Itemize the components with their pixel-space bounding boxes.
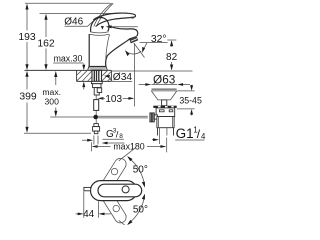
extension line at hose end (max300 bottom) and pop-up rod	[50, 116, 93, 118]
svg-text:50°: 50°	[133, 205, 148, 216]
drain cap band	[153, 106, 176, 108]
mounting shank through deck	[92, 70, 102, 81]
label Ø46	[64, 17, 96, 28]
dimension 103	[97, 94, 134, 105]
extension line 399 bottom	[24, 132, 91, 134]
lever handle (rest position)	[93, 13, 135, 26]
small down arrow at cap	[101, 26, 104, 30]
pop-up plug stem	[162, 100, 167, 106]
deck top line	[25, 69, 112, 71]
svg-text:193: 193	[18, 32, 36, 43]
ghost handle upper (rotated -56)	[96, 156, 128, 198]
dimension 82	[166, 40, 178, 71]
deck hatching right	[102, 71, 111, 81]
svg-text:103: 103	[105, 94, 122, 105]
label G3/8	[102, 127, 123, 140]
rod-to-drain arrow right	[152, 138, 159, 141]
50 deg extension line upper	[119, 148, 136, 161]
rod guide box	[97, 88, 102, 93]
handle (top view)	[98, 184, 142, 197]
deck hatching left	[77, 71, 92, 81]
angle arc	[125, 50, 141, 56]
dimension max.30 (deck thickness)	[53, 54, 85, 90]
svg-text:82: 82	[166, 52, 178, 63]
dimension 399	[19, 71, 37, 133]
dimension 35-45	[177, 85, 203, 116]
svg-text:32°: 32°	[151, 34, 167, 45]
dimension 193	[18, 4, 36, 71]
dimension 44	[76, 192, 111, 221]
washer under deck	[91, 81, 102, 83]
flexible hose	[94, 95, 99, 124]
pop-up rod knob	[150, 113, 158, 122]
label 50 deg lower	[133, 205, 148, 216]
shank stem	[94, 88, 99, 95]
label 32 deg	[140, 34, 168, 53]
faucet body and spout outline	[89, 26, 138, 67]
body (top view)	[91, 181, 137, 201]
50 deg extension line lower	[119, 220, 125, 225]
label 50 deg upper	[133, 164, 148, 175]
aerator at spout tip	[129, 36, 137, 43]
svg-text:max.30: max.30	[54, 54, 83, 64]
aerator extension line vertical	[133, 44, 135, 107]
dimension 162	[37, 14, 55, 70]
connector edge extension ticks	[94, 136, 98, 145]
leader arrow under G3/8	[102, 142, 125, 145]
raised handle (thin outline)	[94, 4, 113, 27]
pop-up rod junction dot	[93, 115, 98, 120]
dimension max180	[91, 138, 166, 153]
deck bottom line	[77, 70, 112, 81]
extension line 162 level	[40, 13, 114, 15]
swivel arc upper	[127, 156, 145, 188]
svg-text:399: 399	[19, 92, 37, 103]
stream direction line 32 deg	[134, 43, 145, 58]
drain body	[156, 108, 175, 117]
svg-text:300: 300	[45, 96, 60, 106]
base escutcheon	[88, 66, 108, 70]
ghost handle lower (rotated +56)	[96, 183, 128, 225]
horizontal pop-up rod	[98, 116, 148, 118]
drain tail pipe	[158, 128, 174, 144]
drain mid section	[157, 117, 174, 128]
svg-text:35-45: 35-45	[179, 95, 202, 105]
swivel arc lower	[127, 194, 145, 226]
label/dimension Ø63	[139, 73, 190, 87]
label G1 1/4	[175, 125, 206, 141]
mounting nut	[93, 84, 101, 88]
dimension max.300	[42, 71, 61, 117]
handle dome / cap	[90, 18, 109, 36]
deck top extension right	[111, 70, 192, 72]
svg-text:G1: G1	[176, 126, 194, 141]
indicator arrow to handle	[106, 25, 138, 28]
rod start arrow left	[82, 139, 93, 142]
drain flange	[151, 89, 177, 100]
svg-text:162: 162	[37, 39, 55, 50]
svg-text:44: 44	[83, 209, 95, 220]
G3/8 connector	[93, 124, 100, 134]
spout stub (top view)	[84, 187, 91, 190]
label Ø34	[104, 72, 132, 83]
extension line top (handle raised height)	[25, 2, 111, 4]
svg-text:max180: max180	[113, 142, 144, 152]
svg-text:50°: 50°	[133, 164, 148, 175]
